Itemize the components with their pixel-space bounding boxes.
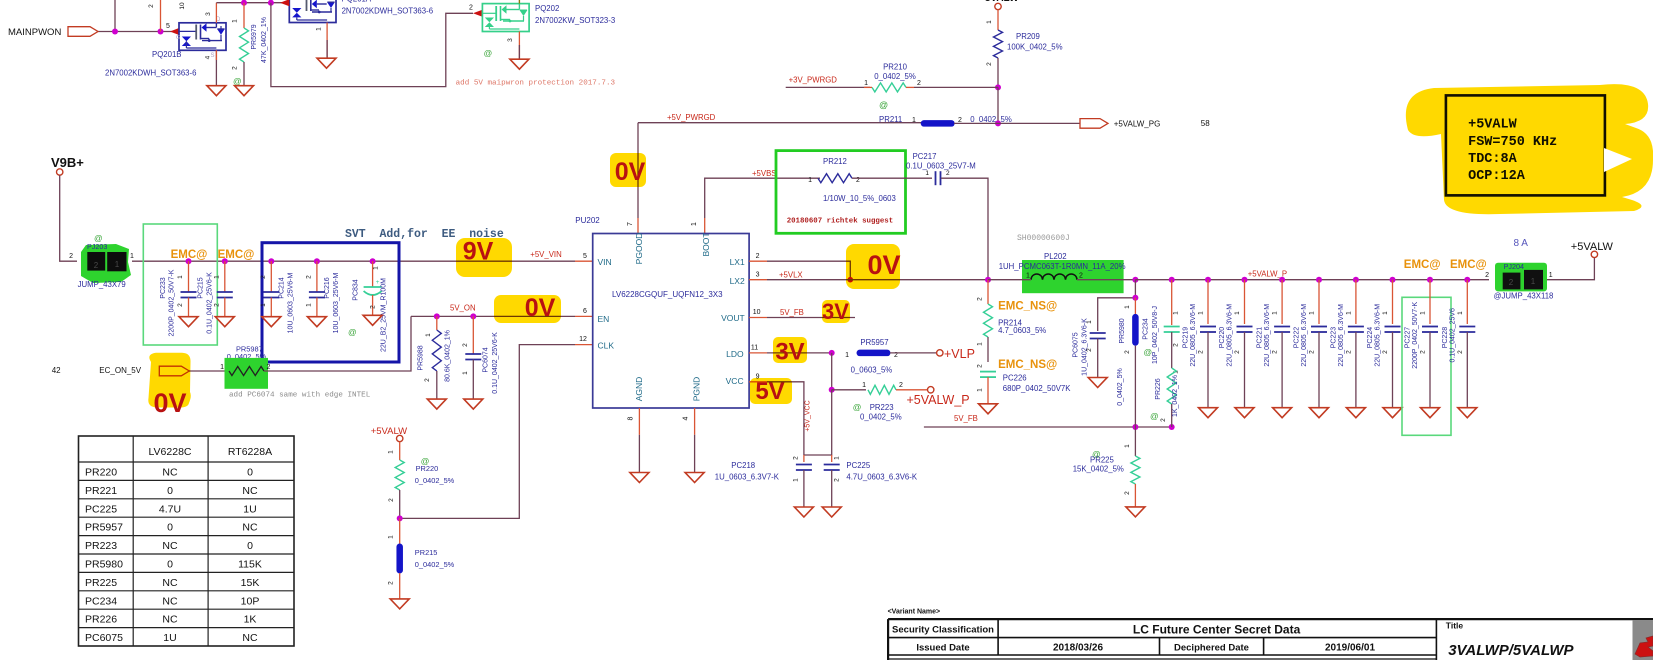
svg-text:1: 1 — [845, 352, 849, 359]
svg-text:EMC@: EMC@ — [218, 249, 255, 261]
highlight big yellow marker blob top right — [1406, 84, 1653, 214]
svg-text:1: 1 — [1026, 273, 1030, 280]
svg-text:2: 2 — [388, 581, 395, 585]
svg-text:@: @ — [348, 327, 357, 337]
wire PGOOD riser — [637, 123, 639, 218]
svg-text:2: 2 — [388, 498, 395, 502]
wire PR212 to PC217 — [852, 177, 932, 179]
svg-text:12: 12 — [579, 336, 587, 343]
svg-text:10: 10 — [179, 2, 186, 10]
svg-text:1: 1 — [912, 117, 916, 124]
svg-text:PC223: PC223 — [1330, 327, 1337, 349]
svg-text:2: 2 — [1173, 343, 1180, 347]
junction LX at PC217/PR214 — [985, 277, 991, 283]
junction 5V_ON at PR5988 — [434, 313, 440, 319]
svg-text:1U_0402_6.3V6-K: 1U_0402_6.3V6-K — [1082, 318, 1089, 376]
svg-text:2: 2 — [834, 478, 841, 482]
svg-text:1: 1 — [977, 342, 984, 346]
svg-text:Security Classification: Security Classification — [892, 625, 994, 636]
svg-text:PC217: PC217 — [913, 152, 937, 161]
svg-text:1: 1 — [220, 364, 224, 371]
junction at PR223 — [829, 387, 835, 393]
svg-text:2: 2 — [917, 80, 921, 87]
svg-text:2: 2 — [1485, 272, 1489, 279]
svg-text:5V_FB: 5V_FB — [780, 308, 804, 317]
svg-text:1U: 1U — [163, 632, 176, 644]
wire PQ201A pin1 to ground — [326, 23, 328, 59]
svg-text:15K_0402_5%: 15K_0402_5% — [1073, 465, 1124, 474]
svg-text:+: + — [376, 279, 380, 286]
svg-text:2: 2 — [1160, 418, 1167, 422]
svg-text:10P_0402_50V8-J: 10P_0402_50V8-J — [1152, 306, 1159, 364]
capacitor PC218 — [803, 455, 805, 462]
junction 5V_FB at PR225 — [1132, 424, 1138, 430]
capacitor PC223 — [1355, 280, 1357, 324]
op-amp regulator PU202 LV6228CGQUF — [593, 234, 749, 409]
ground under PR5988 — [427, 399, 446, 409]
svg-text:@: @ — [879, 100, 888, 110]
svg-text:NC: NC — [162, 467, 178, 479]
svg-text:47K_0402_1%: 47K_0402_1% — [261, 17, 268, 63]
terminal +5VALW left — [397, 435, 403, 441]
svg-text:1: 1 — [862, 382, 866, 389]
variant table LV6228C RT6228A — [79, 436, 295, 646]
svg-text:58: 58 — [1201, 119, 1210, 128]
svg-text:PC234: PC234 — [85, 595, 117, 607]
svg-text:PQ201B: PQ201B — [152, 50, 181, 59]
svg-text:PC215: PC215 — [198, 277, 205, 299]
svg-text:3: 3 — [205, 12, 212, 16]
svg-text:PQ202: PQ202 — [535, 4, 559, 13]
svg-text:PL202: PL202 — [1044, 252, 1067, 261]
svg-text:1: 1 — [1549, 272, 1553, 279]
capacitor PC221 — [1281, 280, 1283, 324]
resistor PR220 — [399, 442, 401, 460]
svg-text:PGND: PGND — [692, 377, 702, 402]
svg-text:42: 42 — [52, 366, 61, 375]
svg-text:PU202: PU202 — [575, 216, 600, 225]
svg-text:PC225: PC225 — [85, 503, 117, 515]
wire net CLK — [400, 345, 575, 519]
svg-text:2: 2 — [946, 170, 950, 177]
ground under PC6074 — [464, 399, 483, 409]
resistor PR5988 — [436, 316, 438, 330]
svg-text:1: 1 — [232, 19, 239, 23]
wire net 5V_FB — [924, 426, 1172, 428]
svg-text:LX2: LX2 — [730, 276, 745, 286]
svg-text:PR210: PR210 — [883, 63, 908, 72]
svg-text:NC: NC — [162, 577, 178, 589]
svg-text:1: 1 — [1198, 311, 1205, 315]
svg-text:G: G — [176, 35, 180, 41]
svg-text:1: 1 — [130, 253, 134, 260]
svg-text:5V_ON: 5V_ON — [450, 304, 476, 313]
svg-text:1: 1 — [1531, 277, 1536, 286]
svg-text:PC234: PC234 — [1143, 318, 1150, 340]
EMC box around PC233 PC215 — [143, 224, 217, 345]
pin 4 PGND to ground — [694, 408, 696, 435]
wire net +5V_VIN rail — [132, 260, 575, 262]
svg-text:10U_0603_25V6-M: 10U_0603_25V6-M — [287, 272, 294, 333]
svg-text:0_0402_5%: 0_0402_5% — [860, 413, 902, 422]
svg-text:2200P_0402_50V7-K: 2200P_0402_50V7-K — [168, 269, 175, 336]
svg-text:2019/06/01: 2019/06/01 — [1325, 643, 1375, 654]
svg-text:0_0402_5%: 0_0402_5% — [874, 72, 916, 81]
svg-text:PR5980: PR5980 — [85, 559, 123, 571]
junction rail at PC834 — [370, 258, 376, 264]
wire from top rail to PQ202 gate — [271, 3, 473, 87]
svg-text:EMC@: EMC@ — [1404, 259, 1441, 271]
highlight marker 0V on PGOOD net — [610, 153, 646, 187]
resistor PR209 — [997, 10, 999, 30]
svg-text:0: 0 — [167, 559, 173, 571]
svg-text:PR5957: PR5957 — [85, 522, 123, 534]
SVT noise box blue — [262, 243, 399, 362]
svg-text:1: 1 — [986, 20, 993, 24]
svg-text:2N7002KDWH_SOT363-6: 2N7002KDWH_SOT363-6 — [105, 69, 196, 78]
svg-text:NC: NC — [242, 522, 258, 534]
svg-text:1: 1 — [793, 478, 800, 482]
junction 5V_ON at PC6074 — [470, 313, 476, 319]
svg-text:LC Future Center Secret Data: LC Future Center Secret Data — [1133, 623, 1301, 637]
svg-text:@: @ — [1144, 347, 1153, 357]
svg-text:+5VBS: +5VBS — [752, 169, 777, 178]
svg-text:EC_ON_5V: EC_ON_5V — [99, 366, 141, 375]
junction rail at x=1244 — [1242, 277, 1248, 283]
svg-text:PC218: PC218 — [731, 461, 755, 470]
svg-text:1: 1 — [177, 275, 184, 279]
svg-text:2: 2 — [260, 275, 267, 279]
junction top rail at PR5979 — [241, 0, 247, 6]
highlight marker 0V on LX net — [846, 244, 900, 289]
svg-text:PR225: PR225 — [85, 577, 117, 589]
svg-text:EMC_NS@: EMC_NS@ — [998, 359, 1057, 371]
svg-text:1: 1 — [388, 535, 395, 539]
resistor PR5980 zero ohm — [1134, 298, 1136, 314]
svg-text:1: 1 — [388, 450, 395, 454]
ground under PQ202 — [510, 59, 529, 69]
svg-text:15K: 15K — [241, 577, 260, 589]
svg-text:4: 4 — [683, 416, 690, 420]
svg-text:2: 2 — [69, 253, 73, 260]
wire VCC — [749, 381, 767, 383]
svg-text:2: 2 — [1382, 350, 1389, 354]
svg-text:PC226: PC226 — [1003, 374, 1027, 383]
svg-text:RT6228A: RT6228A — [228, 446, 272, 458]
wire V9B+ to PJ203 — [60, 175, 77, 261]
svg-text:PR220: PR220 — [416, 464, 439, 473]
wire PR211 to port +5VALW_PG — [954, 122, 1080, 124]
terminal +5VALW right — [1591, 251, 1597, 257]
svg-text:1: 1 — [373, 266, 380, 270]
wire LDO — [749, 352, 767, 354]
green box richtek suggestion — [776, 151, 906, 234]
wire top rail — [216, 2, 287, 4]
svg-text:2: 2 — [462, 343, 469, 347]
svg-text:1: 1 — [925, 170, 929, 177]
svg-text:0: 0 — [247, 540, 253, 552]
svg-text:PR5957: PR5957 — [860, 338, 888, 347]
capacitor PC834 polarized — [372, 261, 374, 270]
svg-text:MAINPWON: MAINPWON — [8, 27, 61, 38]
inductor PL202 — [1022, 260, 1124, 293]
svg-text:V9B+: V9B+ — [51, 155, 84, 170]
svg-text:2: 2 — [305, 275, 312, 279]
svg-text:+5VALW: +5VALW — [1571, 241, 1614, 253]
svg-text:1: 1 — [115, 260, 120, 269]
svg-text:1U: 1U — [243, 503, 256, 515]
svg-text:5: 5 — [166, 23, 170, 30]
svg-text:2: 2 — [148, 4, 155, 8]
junction CLK PR220 PR215 — [397, 515, 403, 521]
junction rail at x=1282 — [1279, 277, 1285, 283]
svg-text:7: 7 — [627, 222, 634, 226]
svg-text:1: 1 — [260, 303, 267, 307]
junction rail at x=1355 — [1353, 277, 1359, 283]
svg-text:@: @ — [484, 48, 493, 58]
svg-text:EMC@: EMC@ — [171, 249, 208, 261]
svg-text:+5V_VCC: +5V_VCC — [805, 400, 812, 431]
svg-text:JUMP_43X79: JUMP_43X79 — [78, 280, 126, 289]
ground under PC6075 — [1088, 378, 1107, 388]
svg-text:0_0402_5%: 0_0402_5% — [415, 476, 455, 485]
svg-text:10: 10 — [753, 309, 761, 316]
wire net 5V_ON — [411, 315, 575, 317]
capacitor PC214 — [270, 261, 272, 270]
svg-text:0_0603_5%: 0_0603_5% — [851, 366, 893, 375]
wire LDO to PR223 — [831, 353, 833, 390]
svg-text:22U_0805_6.3V6-M: 22U_0805_6.3V6-M — [1338, 304, 1345, 367]
svg-text:LV6228C: LV6228C — [148, 446, 191, 458]
svg-text:0_0402_5%: 0_0402_5% — [970, 115, 1012, 124]
highlight marker 5V on VCC net — [750, 378, 792, 404]
capacitor PC222 — [1318, 280, 1320, 324]
svg-text:+5V_PWRGD: +5V_PWRGD — [667, 113, 716, 122]
junction rail at x=1430 — [1427, 277, 1433, 283]
port EC_ON_5V — [159, 366, 189, 376]
ground under PC226 — [979, 404, 998, 414]
ground under PR215 — [390, 599, 409, 609]
svg-text:1: 1 — [316, 27, 323, 31]
svg-text:PR211: PR211 — [879, 115, 902, 124]
ground under PR225 — [1126, 507, 1145, 517]
junction rail after PL202 — [1132, 277, 1138, 283]
wire PR209 junction down to PR211 line — [997, 87, 999, 123]
highlight marker on EC_ON_5V port — [148, 353, 190, 408]
svg-text:2: 2 — [370, 305, 377, 309]
svg-text:2: 2 — [469, 5, 473, 12]
svg-text:9V: 9V — [463, 238, 494, 266]
svg-text:PC834: PC834 — [352, 279, 359, 301]
terminal +VLP — [937, 350, 943, 356]
svg-text:1: 1 — [305, 303, 312, 307]
svg-text:NC: NC — [162, 540, 178, 552]
svg-text:4.7U_0603_6.3V6-K: 4.7U_0603_6.3V6-K — [846, 473, 917, 482]
terminal +3VALW — [995, 3, 1001, 9]
svg-text:11: 11 — [751, 345, 758, 352]
svg-text:PJ204: PJ204 — [1504, 262, 1524, 271]
svg-text:PC222: PC222 — [1294, 327, 1301, 349]
svg-text:@: @ — [233, 76, 242, 86]
resistor PR214 — [987, 280, 989, 304]
svg-text:1UH_PCMC063T-1R0MN_11A_20%: 1UH_PCMC063T-1R0MN_11A_20% — [999, 262, 1126, 271]
svg-text:2: 2 — [1124, 491, 1131, 495]
svg-text:@: @ — [1150, 411, 1159, 421]
svg-text:VIN: VIN — [598, 257, 612, 267]
spec box +5VALW FSW TDC OCP — [1446, 95, 1605, 195]
svg-text:2: 2 — [986, 62, 993, 66]
wire PR5987 to EN riser — [264, 316, 411, 371]
wire PQ201B pin2 riser — [160, 0, 162, 32]
jumper PJ203 — [81, 244, 131, 283]
capacitor PC228 — [1466, 280, 1468, 324]
svg-text:1: 1 — [1382, 311, 1389, 315]
svg-text:0: 0 — [167, 485, 173, 497]
svg-text:PR5988: PR5988 — [418, 345, 425, 370]
wire PQ201B pin4 to ground — [215, 50, 217, 85]
svg-text:2: 2 — [1509, 278, 1514, 287]
svg-text:10U_0603_25V6-M: 10U_0603_25V6-M — [333, 272, 340, 333]
svg-text:LV6228CGQUF_UQFN12_3X3: LV6228CGQUF_UQFN12_3X3 — [612, 290, 723, 299]
highlight marker 3V on LDO net — [773, 337, 807, 363]
svg-text:22U_0805_6.3V6-M: 22U_0805_6.3V6-M — [1375, 304, 1382, 367]
svg-text:2: 2 — [213, 303, 220, 307]
terminal V9B+ — [57, 169, 63, 175]
svg-text:Deciphered Date: Deciphered Date — [1174, 643, 1249, 654]
transistor PQ201B — [179, 23, 226, 51]
svg-text:4.7_0603_5%: 4.7_0603_5% — [998, 326, 1046, 335]
svg-text:2018/03/26: 2018/03/26 — [1053, 643, 1103, 654]
svg-text:PR223: PR223 — [85, 540, 117, 552]
svg-text:22U_0805_6.3V6-M: 22U_0805_6.3V6-M — [1190, 304, 1197, 367]
resistor PR225 — [1134, 427, 1136, 456]
capacitor PC219 — [1207, 280, 1209, 324]
EMC box around PC227 — [1402, 297, 1451, 435]
wire net MAINPWON — [97, 31, 176, 33]
svg-text:LX1: LX1 — [730, 257, 745, 267]
wire PC217 to LX node — [941, 178, 988, 280]
wire VOUT 5V_FB stub — [749, 317, 767, 319]
svg-text:5V_FB: 5V_FB — [954, 414, 978, 423]
capacitor PC224 — [1392, 280, 1394, 324]
svg-text:PR5980: PR5980 — [1119, 318, 1126, 343]
svg-text:@JUMP_43X118: @JUMP_43X118 — [1494, 291, 1554, 300]
wire LX to PC6075 branch — [1098, 280, 1136, 331]
svg-text:2: 2 — [232, 66, 239, 70]
svg-text:8: 8 — [627, 416, 634, 420]
svg-text:0: 0 — [247, 467, 253, 479]
svg-text:PC233: PC233 — [160, 277, 167, 299]
junction at +3V_PWRGD — [995, 84, 1001, 90]
svg-text:1: 1 — [1124, 444, 1131, 448]
svg-text:PR226: PR226 — [1155, 378, 1162, 400]
svg-text:2: 2 — [1420, 350, 1427, 354]
pin arrow into PQ201A — [280, 0, 289, 6]
svg-text:SH00000600J: SH00000600J — [1017, 234, 1070, 243]
svg-text:2: 2 — [1345, 350, 1352, 354]
junction rail at x=1392 — [1390, 277, 1396, 283]
capacitor PC220 — [1244, 280, 1246, 324]
wire PR209 to +3V_PWRGD junction — [997, 58, 999, 87]
terminal +5VALW_P — [928, 387, 934, 393]
svg-text:PC225: PC225 — [846, 461, 871, 470]
port MAINPWON — [68, 27, 98, 37]
svg-text:1: 1 — [1345, 311, 1352, 315]
svg-text:PC214: PC214 — [278, 277, 285, 299]
svg-text:PJ203: PJ203 — [87, 242, 107, 251]
svg-text:1K_0402_1%: 1K_0402_1% — [1172, 375, 1179, 417]
svg-text:EMC@: EMC@ — [1450, 259, 1487, 271]
wire LX2 +5VLX — [749, 279, 767, 281]
svg-text:2: 2 — [1198, 350, 1205, 354]
svg-text:PR226: PR226 — [85, 614, 117, 626]
svg-text:0.1U_0603_25V7-M: 0.1U_0603_25V7-M — [906, 162, 976, 171]
capacitor PC227 — [1429, 280, 1431, 324]
junction rail at PC233 — [186, 258, 192, 264]
svg-text:NC: NC — [242, 632, 258, 644]
junction LX1 LX2 — [848, 277, 854, 283]
svg-text:2: 2 — [424, 378, 431, 382]
junction rail at x=1208 — [1205, 277, 1211, 283]
svg-text:2: 2 — [756, 253, 760, 260]
svg-text:1: 1 — [1124, 305, 1131, 309]
svg-text:2200P_0402_50V7-K: 2200P_0402_50V7-K — [1412, 301, 1419, 368]
svg-text:VCC: VCC — [726, 376, 744, 386]
svg-text:2: 2 — [1079, 273, 1083, 280]
svg-text:EMC_NS@: EMC_NS@ — [998, 301, 1057, 313]
highlight marker 3V on VOUT net — [822, 300, 850, 323]
junction at PC6075 branch — [1132, 295, 1138, 301]
svg-text:5: 5 — [583, 253, 587, 260]
junction rail at x=1171 — [1169, 277, 1175, 283]
transistor PQ201A — [289, 0, 336, 23]
svg-text:2: 2 — [1309, 350, 1316, 354]
svg-text:VOUT: VOUT — [721, 313, 745, 323]
logo box — [1633, 620, 1653, 660]
svg-text:+5VALW_PG: +5VALW_PG — [1114, 120, 1161, 129]
junction 5V_FB at PR226 — [1169, 424, 1175, 430]
junction rail at x=1319 — [1316, 277, 1322, 283]
transistor PQ202 — [482, 4, 529, 32]
svg-text:4: 4 — [205, 55, 212, 59]
svg-text:PC219: PC219 — [1183, 327, 1190, 349]
svg-text:<Variant Name>: <Variant Name> — [888, 609, 941, 616]
port +5VALW_PG — [1080, 119, 1108, 129]
svg-text:add 5V maipwron protection 201: add 5V maipwron protection 2017.7.3 — [456, 80, 616, 88]
capacitor PC215 — [224, 261, 226, 270]
junction top rail at PQ202 branch — [268, 0, 274, 6]
svg-text:5V: 5V — [755, 378, 784, 405]
svg-text:PR209: PR209 — [1016, 32, 1040, 41]
wire EC_ON_5V to PR5987 — [189, 370, 227, 372]
svg-text:1/10W_10_5%_0603: 1/10W_10_5%_0603 — [823, 194, 896, 203]
svg-text:0.1U_0402_25V6-K: 0.1U_0402_25V6-K — [207, 272, 214, 334]
svg-text:+5VALW_P: +5VALW_P — [907, 393, 970, 407]
svg-text:1: 1 — [864, 80, 868, 87]
svg-text:1: 1 — [1234, 311, 1241, 315]
svg-text:2: 2 — [94, 261, 99, 270]
svg-text:0.1U_0402_25V6-K: 0.1U_0402_25V6-K — [492, 332, 499, 394]
svg-text:0: 0 — [167, 522, 173, 534]
resistor PR223 — [832, 389, 866, 391]
wire LDO node down to caps — [804, 390, 832, 455]
svg-text:3V: 3V — [775, 339, 804, 366]
junction rail at PC216 — [314, 258, 320, 264]
svg-text:1: 1 — [425, 333, 432, 337]
svg-text:2N7002KDWH_SOT363-6: 2N7002KDWH_SOT363-6 — [342, 7, 433, 16]
junction rail at x=1467 — [1464, 277, 1470, 283]
svg-text:Title: Title — [1446, 621, 1464, 631]
